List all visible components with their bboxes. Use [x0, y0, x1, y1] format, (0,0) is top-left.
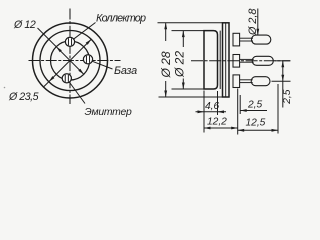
transistor bottom view: centerline horizontal	[29, 60, 121, 62]
leader base	[92, 61, 113, 69]
svg-text:4,6: 4,6	[205, 101, 219, 112]
dimension 4,6	[196, 111, 227, 113]
svg-text:Ø 28: Ø 28	[159, 51, 173, 78]
dimension D12 line	[38, 28, 85, 75]
base lead insulator bushing (side view)	[233, 55, 240, 68]
extension line can right face	[217, 91, 219, 115]
svg-text:12,5: 12,5	[246, 117, 266, 128]
emitter lead wire	[240, 79, 253, 81]
flange inner line	[225, 23, 227, 97]
svg-text:Ø 23,5: Ø 23,5	[8, 91, 39, 103]
base lead tip	[252, 56, 273, 65]
emitter lead insulator bushing (side view)	[233, 75, 240, 88]
dimension D22 line	[182, 31, 184, 47]
emitter lead tip	[251, 77, 270, 86]
can body (side view)	[204, 31, 218, 89]
svg-text:Коллектор: Коллектор	[96, 13, 146, 25]
dimension D2.8 leader	[257, 9, 259, 36]
extension line flange bottom	[159, 96, 223, 98]
base lead (bottom view)	[83, 55, 92, 64]
extension line can bottom	[172, 88, 205, 90]
svg-text:Эмиттер: Эмиттер	[85, 107, 133, 118]
svg-text:Ø 12: Ø 12	[13, 19, 36, 31]
extension line can top	[172, 30, 205, 32]
dimension D23.5 arrows	[49, 39, 92, 81]
emitter lead (bottom view)	[62, 74, 71, 83]
case outer circle (flange)	[33, 23, 108, 98]
svg-text:2,5: 2,5	[247, 100, 262, 111]
case middle circle (D23.5)	[40, 31, 100, 91]
transistor bottom view: centerline vertical	[69, 9, 71, 105]
dimension 12,5	[238, 129, 278, 131]
dimension 12,2	[204, 127, 238, 129]
weld ring	[219, 31, 221, 89]
dimension D12 arrows	[56, 47, 84, 75]
dimension D28 line	[165, 23, 167, 41]
collector lead wire	[240, 37, 253, 39]
collector lead (bottom view)	[65, 37, 74, 46]
flange plate	[223, 23, 230, 97]
speck	[4, 87, 6, 89]
extension line lead tips	[277, 84, 279, 134]
svg-text:2,5: 2,5	[282, 89, 293, 104]
collector lead tip	[252, 35, 271, 44]
svg-text:Ø 2,8: Ø 2,8	[247, 9, 259, 36]
side view centerline	[191, 60, 290, 62]
extension line base lead tip	[275, 60, 291, 62]
lead circle (D12)	[51, 41, 90, 80]
leader emitter	[69, 82, 85, 104]
extension line flange top	[158, 22, 223, 24]
svg-text:База: База	[114, 65, 137, 77]
extension line emitter lead tip	[272, 80, 291, 82]
extension line flange right	[237, 89, 239, 135]
collector lead insulator bushing (side view)	[233, 33, 240, 46]
dimension D23.5 line	[44, 39, 92, 87]
extension line bushing right	[239, 95, 241, 114]
dimension 2,5 (lead stickout)	[240, 110, 267, 112]
svg-text:Ø 22: Ø 22	[173, 51, 187, 78]
svg-text:12,2: 12,2	[207, 117, 227, 128]
base lead wire	[240, 58, 254, 60]
leader collector	[74, 23, 96, 40]
dimension 2,5 lead pitch (vertical)	[282, 61, 284, 108]
extension line can left face	[203, 91, 205, 133]
